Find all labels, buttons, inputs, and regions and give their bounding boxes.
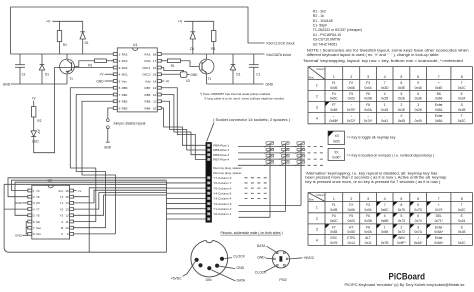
- pin 7 U1 RB1: [113, 93, 117, 96]
- svg-text:GND: GND: [15, 201, 23, 205]
- svg-text:LED: LED: [32, 140, 39, 144]
- switch key at row 165.3 col 270: [266, 161, 274, 163]
- svg-text:Pinouts, solderside male ( on: Pinouts, solderside male ( on both sides…: [221, 231, 283, 235]
- switch key at row 159.1 col 301: [297, 155, 305, 157]
- ground GND at X3: [187, 74, 190, 76]
- svg-text:Column: Column: [316, 194, 325, 197]
- svg-text:0x4A*: 0x4A*: [414, 241, 423, 245]
- svg-text:RB7-Row 4: RB7-Row 4: [213, 158, 229, 162]
- svg-text:U1: U1: [133, 43, 138, 47]
- svg-text:0x49: 0x49: [415, 119, 422, 123]
- svg-text:0x41: 0x41: [381, 119, 388, 123]
- power +V at U2 Vcc pin 16: [74, 190, 77, 192]
- svg-text:+5VDC: +5VDC: [171, 277, 183, 281]
- diode D1 (clock line to GND): [41, 54, 43, 64]
- svg-text:been pressed more than 2 secon: been pressed more than 2 seconds ( as it…: [305, 176, 446, 180]
- svg-text:Enter: Enter: [435, 225, 444, 229]
- svg-text:F2: F2: [349, 203, 353, 207]
- svg-text:U2-74HCT4051: U2-74HCT4051: [313, 42, 338, 46]
- ground GND (right rail): [207, 83, 264, 85]
- svg-text:CLOCK: CLOCK: [233, 255, 245, 259]
- svg-text:F2: F2: [349, 81, 353, 85]
- svg-text:T1: T1: [69, 77, 73, 81]
- svg-text:RA2: RA2: [122, 52, 128, 56]
- svg-text:0x04: 0x04: [365, 208, 372, 212]
- svg-text:0x79: 0x79: [435, 208, 442, 212]
- svg-text:B: B: [61, 226, 63, 230]
- svg-text:3: 3: [316, 105, 318, 109]
- transistor T1 (clock open-collector driver): [66, 54, 68, 59]
- svg-text:ALT: ALT: [365, 236, 371, 240]
- pin 8 U2 Vss: [28, 233, 32, 236]
- svg-text:0x2C: 0x2C: [458, 86, 466, 90]
- svg-text:13: 13: [153, 86, 157, 90]
- wire DIN CLOCK pointer: [224, 258, 232, 259]
- svg-text:+: +: [438, 81, 440, 85]
- wire U2 Y4 to connector band: [12, 180, 167, 190]
- wire OSC2 to resonator X3: [161, 73, 180, 75]
- switch key at row 146.4 col 285.5: [282, 142, 290, 144]
- svg-text:F8: F8: [366, 103, 370, 107]
- svg-text:If long cable is to be used, ': If long cable is to be used, 'extra' pul…: [205, 96, 285, 100]
- pin 7 U2 Vee: [28, 226, 32, 229]
- wire DIN +5VDC pointer: [183, 262, 196, 277]
- svg-text:GND: GND: [257, 256, 265, 260]
- svg-text:,: ,: [461, 236, 462, 240]
- svg-text:4: 4: [384, 92, 386, 96]
- svg-text:0x46: 0x46: [415, 86, 422, 90]
- svg-text:Y0: Y0: [60, 207, 64, 211]
- svg-text:0x0B: 0x0B: [364, 219, 371, 223]
- svg-text:.: .: [384, 236, 385, 240]
- wire connector fan-in stubs: [167, 182, 206, 184]
- svg-text:5: 5: [400, 197, 402, 201]
- svg-text:DIN: DIN: [206, 278, 212, 282]
- svg-text:4: 4: [316, 238, 318, 242]
- svg-text:Y1-Column 2: Y1-Column 2: [213, 207, 231, 211]
- svg-text:0x0B: 0x0B: [364, 97, 371, 101]
- svg-text:Enter: Enter: [435, 236, 444, 240]
- pin 12 U1 RB6: [157, 93, 161, 96]
- svg-text:( Socket connector 14 sockets;: ( Socket connector 14 sockets; 2 spacers…: [213, 118, 290, 122]
- pin 9 U1 RB3: [113, 107, 117, 110]
- svg-text:5: 5: [400, 92, 402, 96]
- svg-text:4: 4: [384, 75, 386, 79]
- svg-text:0x24: 0x24: [458, 219, 465, 223]
- svg-text:0x74: 0x74: [415, 219, 422, 223]
- svg-text:4: 4: [384, 197, 386, 201]
- pin 13 U1 RB7: [157, 86, 161, 89]
- pin 3 U2 I/O: [28, 202, 32, 205]
- wire U2 Y5 to connector band: [15, 182, 167, 215]
- svg-text:Y2: Y2: [60, 195, 64, 199]
- svg-text:Row: Row: [309, 199, 314, 202]
- svg-text:R1: R1: [88, 64, 92, 68]
- svg-text:0x73: 0x73: [398, 219, 405, 223]
- svg-text:0x25: 0x25: [381, 97, 388, 101]
- svg-text:F7: F7: [332, 225, 336, 229]
- svg-text:+V: +V: [78, 189, 82, 193]
- svg-text:6: 6: [417, 214, 419, 218]
- pin 11 U2 A: [70, 220, 74, 223]
- svg-text:RB0: RB0: [122, 86, 128, 90]
- svg-text:0x75: 0x75: [398, 208, 405, 212]
- svg-text:2: 2: [400, 225, 402, 229]
- svg-text:12: 12: [65, 214, 69, 218]
- svg-text:0x4E: 0x4E: [435, 86, 443, 90]
- op-amp U1 PIC16F84 body: [117, 48, 157, 112]
- svg-text:F3: F3: [366, 203, 370, 207]
- svg-text:T: T: [461, 81, 463, 85]
- svg-text:Y1: Y1: [60, 201, 64, 205]
- svg-text:key is pressed once more, or n: key is pressed once more, or no key is p…: [305, 180, 441, 184]
- pin 13 U2 Y0: [70, 208, 74, 211]
- svg-text:.: .: [418, 114, 419, 118]
- svg-text:RB3: RB3: [122, 106, 128, 110]
- svg-text:4: 4: [384, 214, 386, 218]
- pin DIN CLOCK: [220, 257, 224, 261]
- pin 1 U1 RA2: [113, 53, 117, 56]
- pin 2 U1 RA3: [113, 59, 117, 62]
- svg-text:GND: GND: [266, 83, 274, 87]
- svg-text:Y4-Column 5: Y4-Column 5: [213, 191, 231, 195]
- svg-text:F6: F6: [366, 214, 370, 218]
- pin 12 U2 Y3: [70, 214, 74, 217]
- pin 6 U1 RB0: [113, 86, 117, 89]
- svg-text:Dummy plug, spacer: Dummy plug, spacer: [213, 171, 241, 175]
- svg-text:0x26: 0x26: [415, 108, 422, 112]
- svg-text:C: C: [61, 232, 63, 236]
- svg-text:Enter: Enter: [435, 103, 444, 107]
- svg-text:C1- 56pF: C1- 56pF: [313, 24, 328, 28]
- wire U2 Y2 to connector Column 3: [74, 188, 167, 197]
- svg-text:1: 1: [384, 225, 386, 229]
- svg-text:Inh: Inh: [36, 220, 40, 224]
- svg-text:0x05: 0x05: [330, 208, 337, 212]
- svg-text:0x05: 0x05: [330, 86, 337, 90]
- svg-text:DEL: DEL: [436, 214, 443, 218]
- wire U1 RB6 to connector Row 3: [161, 95, 206, 155]
- svg-text:Y5-Column 6: Y5-Column 6: [213, 186, 231, 190]
- svg-text:8: 8: [461, 75, 463, 79]
- pin 4 U1 MCL: [113, 73, 117, 76]
- svg-text:9: 9: [417, 81, 419, 85]
- wire U1 RB5 to connector Row 2: [161, 101, 206, 150]
- svg-text:0x72: 0x72: [398, 230, 405, 234]
- pin PS/2 contact: [284, 264, 286, 266]
- pin 4 U2 Y7: [28, 208, 32, 211]
- diode D1 (clock clamp to +V): [82, 21, 84, 32]
- svg-text:0x16: 0x16: [381, 108, 388, 112]
- svg-text:2: 2: [400, 103, 402, 107]
- svg-text:0x0A: 0x0A: [364, 230, 372, 234]
- svg-text:X3: X3: [186, 79, 190, 83]
- svg-text:OSC2: OSC2: [142, 73, 151, 77]
- svg-text:14: 14: [65, 201, 69, 205]
- svg-text:PiCBoard: PiCBoard: [389, 271, 426, 282]
- wire T1 base from RA0 via R1: [161, 60, 167, 62]
- pin PS/2 contact: [277, 265, 279, 267]
- svg-text:0x7B: 0x7B: [381, 241, 388, 245]
- svg-text:3: 3: [367, 75, 369, 79]
- svg-text:,: ,: [384, 114, 385, 118]
- switch key at row 152.9 col 285.5: [282, 148, 290, 150]
- resistor R2: [32, 107, 36, 118]
- svg-text:Vss: Vss: [36, 232, 41, 236]
- svg-text:0x06: 0x06: [348, 86, 355, 90]
- svg-text:Kbd CLOCK in/out: Kbd CLOCK in/out: [267, 42, 295, 46]
- svg-text:Y7: Y7: [36, 207, 40, 211]
- svg-text:D1 - 1N4148: D1 - 1N4148: [313, 19, 333, 23]
- svg-text:F5: F5: [349, 92, 353, 96]
- svg-text:1: 1: [384, 103, 386, 107]
- pin 15 U1 OSC2: [157, 73, 161, 76]
- svg-text:RB4: RB4: [145, 106, 151, 110]
- svg-text:RB5-Row 2: RB5-Row 2: [213, 148, 229, 152]
- pin 8 U1 RB2: [113, 100, 117, 103]
- svg-text:7: 7: [384, 203, 386, 207]
- connector J1 socket strip 14 sockets: [206, 142, 212, 222]
- svg-text:0x75*: 0x75*: [347, 108, 356, 112]
- svg-text:F5: F5: [349, 214, 353, 218]
- wire U2 Y1 to connector Column 2: [74, 190, 167, 203]
- wire matrix row lines: [238, 145, 305, 147]
- svg-text:3: 3: [367, 197, 369, 201]
- svg-text:0x00: 0x00: [333, 140, 340, 144]
- svg-text:F8: F8: [366, 225, 370, 229]
- pin DIN nc: [198, 263, 202, 267]
- svg-text:U1 - PIC16F84-10: U1 - PIC16F84-10: [313, 33, 341, 37]
- svg-text:CTRL: CTRL: [347, 236, 356, 240]
- svg-text:0x03: 0x03: [348, 97, 355, 101]
- svg-text:2: 2: [316, 94, 318, 98]
- svg-text:5: 5: [400, 75, 402, 79]
- table normal keymapping: [308, 66, 473, 68]
- svg-text:3: 3: [417, 225, 419, 229]
- svg-text:RA0: RA0: [145, 59, 151, 63]
- switch key at row 152.9 col 270: [266, 148, 274, 150]
- svg-text:10: 10: [153, 106, 157, 110]
- svg-text:3: 3: [417, 103, 419, 107]
- diode D1 (data line to GND): [232, 54, 234, 64]
- svg-text:0x1E: 0x1E: [398, 108, 406, 112]
- pin PS/2 contact: [274, 258, 276, 260]
- pin PS/2 key rectangle: [279, 256, 282, 261]
- pin 3 U1 RA4: [113, 66, 117, 69]
- svg-text:DATA: DATA: [237, 278, 246, 282]
- svg-text:GND: GND: [237, 266, 245, 270]
- svg-text:0x7D: 0x7D: [414, 208, 422, 212]
- switch key at row 146.4 col 270: [266, 142, 274, 144]
- wire column 1 feed: [239, 143, 271, 217]
- wire U2 Y6 to connector Column 7: [8, 178, 206, 197]
- svg-text:0x0D: 0x0D: [347, 230, 355, 234]
- svg-text:C1: C1: [22, 73, 26, 77]
- svg-text:Dummy plug, spacer: Dummy plug, spacer: [213, 166, 241, 170]
- capacitor C1 (data line): [253, 54, 255, 65]
- svg-text:2: 2: [316, 217, 318, 221]
- svg-text:7: 7: [438, 75, 440, 79]
- svg-text:PIC/PC-Keyboard 'emulator': PIC/PC-Keyboard 'emulator' (c) By Tony K…: [345, 283, 465, 287]
- svg-text:7: 7: [438, 197, 440, 201]
- svg-text:+V: +V: [178, 20, 183, 24]
- svg-text:F1: F1: [332, 81, 336, 85]
- wire clock bus: [11, 53, 114, 55]
- svg-text:Y7-Column 0: Y7-Column 0: [213, 176, 231, 180]
- svg-text:15: 15: [153, 73, 157, 77]
- wire jumper to ground: [107, 129, 109, 143]
- svg-text:0x2C: 0x2C: [458, 208, 466, 212]
- svg-text:T1: T1: [208, 77, 212, 81]
- pin PS/2 contact: [286, 258, 288, 260]
- svg-text:F7: F7: [332, 103, 336, 107]
- pin 5 U2 Y5: [28, 214, 32, 217]
- svg-text:0x14: 0x14: [348, 241, 355, 245]
- svg-text:F4: F4: [332, 214, 336, 218]
- svg-text:9: 9: [417, 203, 419, 207]
- pin 10 U2 B: [70, 226, 74, 229]
- svg-text:0x3D: 0x3D: [381, 86, 389, 90]
- svg-text:RA3: RA3: [122, 59, 128, 63]
- pin 16 U2 Vcc: [70, 189, 74, 192]
- svg-text:0x76: 0x76: [330, 241, 337, 245]
- svg-text:0x5A*: 0x5A*: [434, 241, 443, 245]
- svg-text:0x83: 0x83: [330, 230, 337, 234]
- svg-text:0x74*: 0x74*: [364, 119, 373, 123]
- wire U1 RB7 to connector Row 4: [161, 88, 206, 160]
- svg-text:Y0-Column 1: Y0-Column 1: [213, 212, 231, 216]
- svg-text:0x24: 0x24: [458, 97, 465, 101]
- pin PS/2 contact: [284, 252, 286, 254]
- wire DIN GND pointer: [219, 266, 235, 268]
- wire OSC1 to resonator X3: [161, 68, 183, 72]
- svg-text:0x1B: 0x1B: [458, 230, 465, 234]
- wire column 2 feed: [239, 143, 286, 211]
- svg-text:11: 11: [66, 220, 69, 224]
- svg-text:0x36: 0x36: [415, 97, 422, 101]
- wire T1 base from R1: [75, 61, 95, 67]
- wire U1 RB1 to U2 B: [74, 95, 114, 228]
- svg-text:RB5: RB5: [145, 100, 151, 104]
- svg-text:0x69: 0x69: [381, 230, 388, 234]
- wire matrix column dashed stubs: [245, 177, 269, 179]
- wire U1 RB2 to U2 C: [74, 101, 116, 234]
- svg-text:4: 4: [316, 117, 318, 121]
- svg-text:=> Key is toggle alt. keymap k: => Key is toggle alt. keymap key: [347, 136, 396, 140]
- svg-text:Y6: Y6: [36, 195, 40, 199]
- svg-text:=> Key is located on numpad. (: => Key is located on numpad. ( i.e. numl…: [347, 154, 434, 158]
- svg-text:+V: +V: [46, 20, 51, 24]
- resistor R1 (clock base resistor from RA3): [95, 59, 107, 63]
- svg-text:Y3-Column 4: Y3-Column 4: [213, 197, 231, 201]
- svg-text:0x7A: 0x7A: [414, 230, 422, 234]
- svg-text:2: 2: [350, 197, 352, 201]
- svg-text:F1: F1: [332, 203, 336, 207]
- svg-text:R2 - 1k: R2 - 1k: [313, 14, 325, 18]
- svg-text:1: 1: [333, 197, 335, 201]
- svg-text:DATA: DATA: [257, 244, 266, 248]
- svg-text:GND: GND: [190, 73, 198, 77]
- svg-text:ESC: ESC: [331, 236, 338, 240]
- ground GND below jumper: [106, 141, 110, 143]
- svg-text:Vdd: Vdd: [145, 79, 151, 83]
- svg-text:Column: Column: [316, 68, 325, 71]
- legend toggle key box: [328, 131, 344, 145]
- svg-text:RB1: RB1: [122, 93, 128, 97]
- svg-text:A: A: [61, 220, 63, 224]
- svg-text:14: 14: [153, 79, 157, 83]
- svg-text:10: 10: [65, 226, 69, 230]
- resistor R1 (data pull-up): [213, 21, 215, 30]
- svg-text:/: /: [418, 236, 419, 240]
- wire base resistor to U1 pin 2: [106, 60, 113, 62]
- switch key at row 152.9 col 301: [297, 148, 305, 150]
- svg-text:→: →: [366, 114, 369, 118]
- svg-text:16: 16: [153, 66, 157, 70]
- wire R2 to LED: [33, 117, 35, 131]
- svg-text:F4: F4: [332, 92, 336, 96]
- svg-text:Vee: Vee: [36, 226, 41, 230]
- connector DIN-5 keyboard plug: [191, 240, 228, 277]
- svg-text:0x3E: 0x3E: [398, 86, 406, 90]
- svg-text:0x2E: 0x2E: [398, 97, 406, 101]
- svg-text:0x6B*: 0x6B*: [330, 119, 339, 123]
- wire U1 RB3 to jumper: [108, 108, 114, 119]
- svg-text:6: 6: [417, 92, 419, 96]
- svg-text:5: 5: [400, 214, 402, 218]
- svg-text:Y5: Y5: [36, 214, 40, 218]
- svg-text:D1: D1: [85, 41, 89, 45]
- svg-text:18: 18: [153, 52, 157, 56]
- capacitor C1 (clock line): [19, 54, 21, 65]
- svg-text:0x66: 0x66: [435, 97, 442, 101]
- pin DIN +5VDC: [195, 258, 199, 262]
- svg-text:+5VDC: +5VDC: [303, 256, 315, 260]
- wire U1 RA4 to LED branch: [34, 68, 114, 153]
- svg-text:GND: GND: [96, 79, 104, 83]
- svg-text:0x1B: 0x1B: [458, 108, 465, 112]
- pin 16 U1 OSC1: [157, 66, 161, 69]
- legend numpad key box: [328, 148, 344, 160]
- wire left bus loop around U2 to connector bottom: [4, 184, 166, 252]
- svg-text:0x0C: 0x0C: [330, 97, 338, 101]
- switch key at row 146.4 col 301: [297, 142, 305, 144]
- svg-text:0x71*: 0x71*: [435, 219, 444, 223]
- svg-text:Kbd DATA in/out: Kbd DATA in/out: [267, 53, 292, 57]
- svg-text:0x45: 0x45: [398, 119, 405, 123]
- svg-text:PS/2: PS/2: [279, 278, 286, 282]
- svg-text:16: 16: [65, 189, 69, 193]
- svg-text:D1: D1: [236, 73, 240, 77]
- svg-text:6: 6: [417, 197, 419, 201]
- pin 5 U1 Vss: [113, 80, 117, 83]
- svg-text:MCL: MCL: [122, 73, 129, 77]
- svg-text:0x04: 0x04: [365, 86, 372, 90]
- svg-text:0x5A: 0x5A: [435, 108, 443, 112]
- svg-text:Row: Row: [309, 77, 314, 80]
- wire ground return bus to connector: [89, 181, 166, 253]
- svg-text:1: 1: [316, 206, 318, 210]
- wire U2 Y3 to connector Column 4: [74, 195, 167, 215]
- svg-text:0x03: 0x03: [348, 219, 355, 223]
- svg-text:8: 8: [400, 203, 402, 207]
- svg-text:0x72*: 0x72*: [347, 119, 356, 123]
- switch key at row 165.3 col 301: [297, 161, 305, 163]
- svg-text:GND: GND: [104, 146, 112, 150]
- wire R1 pull-up top lead: [59, 21, 61, 30]
- connector PS/2 mini-DIN plug: [272, 251, 289, 268]
- svg-text:RB4-Row 1: RB4-Row 1: [213, 144, 229, 148]
